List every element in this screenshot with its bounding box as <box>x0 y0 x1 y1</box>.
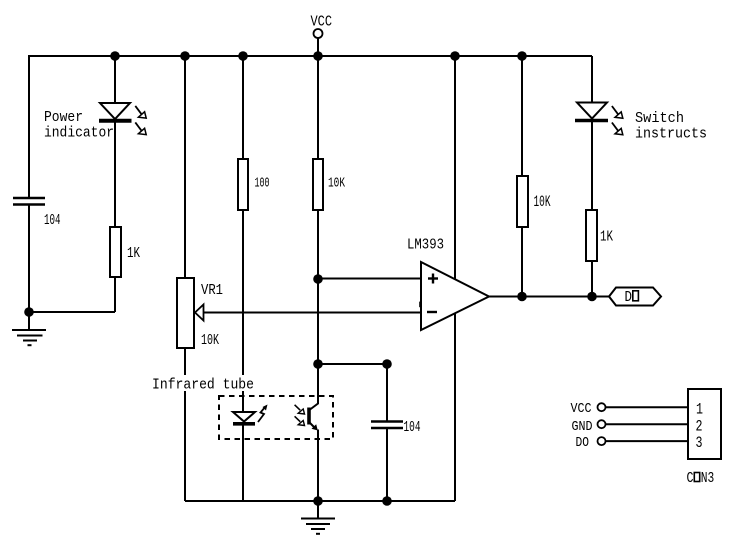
wire: rail corner down to switch LED <box>591 56 593 103</box>
wire: rail down to resistor 10K right <box>521 56 523 176</box>
wire: top VCC rail <box>28 55 592 57</box>
node: junction dot plus input <box>313 274 323 284</box>
ground symbol bottom <box>301 501 335 534</box>
wire: resistor R5 to output node <box>591 261 593 297</box>
svg-text:1K: 1K <box>127 245 140 262</box>
node: junction dot top rail x455 <box>450 51 460 61</box>
LED D2 emission zigzag arrow <box>258 405 268 423</box>
wire: IR LED to bottom rail <box>242 425 244 501</box>
capacitor C2 104 <box>371 422 403 429</box>
LED D1 emission arrows <box>135 106 146 135</box>
svg-text:VR1: VR1 <box>201 282 223 299</box>
port flag DO <box>609 288 661 306</box>
node: junction dot top rail x115 <box>110 51 120 61</box>
svg-text:104: 104 <box>44 212 61 229</box>
svg-text:104: 104 <box>404 419 421 436</box>
svg-text:10K: 10K <box>328 176 345 192</box>
svg-text:D: D <box>625 289 633 306</box>
terminal VCC <box>314 29 323 56</box>
wire: comparator output <box>489 296 609 298</box>
LED D3 emission arrows <box>612 106 623 135</box>
resistor R2 1K <box>110 227 121 277</box>
node: junction dot output x522 <box>517 292 527 302</box>
LED D2 infrared emitter <box>233 412 255 424</box>
node: junction dot top rail x522 <box>517 51 527 61</box>
label Switch instructs <box>635 110 707 143</box>
wire: capacitor C2 top lead <box>386 364 388 421</box>
svg-text:Switch: Switch <box>635 110 684 127</box>
node: junction dot capacitor top <box>382 359 392 369</box>
wire: plus node down to collector node <box>317 279 319 364</box>
node: junction dot capacitor bottom <box>382 496 392 506</box>
node: junction dot output x592 <box>587 292 597 302</box>
capacitor C1 104 <box>13 198 45 205</box>
label CON3 box glyph <box>694 473 699 482</box>
wire: rail down to resistor 10K middle <box>317 56 319 159</box>
wire: comparator power from rail <box>454 56 456 280</box>
wire: capacitor to ground node <box>28 205 30 313</box>
node: junction dot left ground <box>24 307 34 317</box>
dashed box infrared tube <box>219 396 333 439</box>
label DO flag box glyph <box>633 291 639 301</box>
wire: rail to power LED <box>114 56 116 103</box>
label CON3 <box>687 470 715 487</box>
svg-text:LM393: LM393 <box>407 237 444 254</box>
node: junction dot bottom rail ground <box>313 496 323 506</box>
wire: collector node down to phototransistor <box>310 364 318 410</box>
label Power indicator <box>44 109 114 142</box>
phototransistor light arrows <box>295 405 305 426</box>
connector CON3 body <box>688 389 721 459</box>
svg-text:VCC: VCC <box>571 401 592 417</box>
LED D1 power indicator <box>99 103 132 121</box>
potentiometer VR1 wiper arrow <box>195 305 204 321</box>
wire: rail down to resistor 100 <box>242 56 244 159</box>
svg-text:10K: 10K <box>201 332 219 349</box>
resistor R3 10K <box>313 159 323 210</box>
svg-text:100: 100 <box>255 176 270 192</box>
wire: bottom rail <box>185 500 455 502</box>
node: junction dot top rail x318 <box>313 51 323 61</box>
resistor R5 1K <box>586 210 597 261</box>
svg-text:1K: 1K <box>600 229 613 246</box>
phototransistor Q1 <box>309 408 318 431</box>
pin 3 terminal circle <box>598 437 606 445</box>
resistor R4 10K <box>517 176 528 227</box>
svg-text:3: 3 <box>696 434 703 452</box>
pin 3 wire <box>606 440 688 442</box>
wire: resistor 100 to IR LED <box>242 210 244 412</box>
wire: resistor 1K to ground wire <box>114 277 116 312</box>
svg-text:Power: Power <box>44 109 83 126</box>
svg-text:Infrared tube: Infrared tube <box>152 377 254 394</box>
op-amp U1 LM393 <box>421 262 489 330</box>
label Infrared tube background halo <box>148 375 256 391</box>
wire: LED to resistor 1K <box>114 121 116 227</box>
node: junction dot top rail x243 <box>238 51 248 61</box>
LED D3 switch indicator <box>575 103 608 121</box>
wire: left branch down to capacitor <box>28 56 30 197</box>
pin 1 wire <box>606 406 688 408</box>
node: junction dot collector <box>313 359 323 369</box>
wire: rail down to VR1 <box>184 56 186 278</box>
wire: plus node to comparator plus input <box>318 278 421 280</box>
wire: comparator ground to bottom rail <box>454 312 456 501</box>
svg-text:2: 2 <box>696 418 703 436</box>
svg-text:DO: DO <box>576 435 590 451</box>
label DO flag text <box>625 289 633 306</box>
pin artifact mark on op-amp left edge <box>419 302 422 308</box>
svg-text:VCC: VCC <box>311 13 333 30</box>
ground symbol left <box>12 312 46 345</box>
wire: ground node to 1K resistor <box>29 311 115 313</box>
svg-text:indicator: indicator <box>44 125 114 142</box>
wire: resistor 10K to plus node <box>317 210 319 279</box>
wire: resistor R4 to output node <box>521 227 523 297</box>
svg-text:N3: N3 <box>701 470 715 487</box>
pin 1 terminal circle <box>598 403 606 411</box>
node: junction dot top rail x185 <box>180 51 190 61</box>
wire: capacitor C2 to bottom rail <box>386 428 388 501</box>
wire: phototransistor emitter to bottom rail <box>317 430 319 502</box>
wire: VR1 bottom to bottom rail <box>184 348 186 501</box>
potentiometer VR1 body <box>177 278 194 348</box>
svg-text:C: C <box>687 470 694 487</box>
pin 2 wire <box>606 423 688 425</box>
svg-text:10K: 10K <box>534 193 551 211</box>
wire: VR1 wiper to comparator minus input <box>204 312 422 314</box>
wire: collector node to capacitor 104 <box>318 363 387 365</box>
svg-text:GND: GND <box>572 419 593 435</box>
svg-text:1: 1 <box>696 401 703 419</box>
wire: LED D3 to resistor 1K right <box>591 121 593 211</box>
resistor R1 100 <box>238 159 248 210</box>
svg-text:instructs: instructs <box>635 126 707 143</box>
pin 2 terminal circle <box>598 420 606 428</box>
